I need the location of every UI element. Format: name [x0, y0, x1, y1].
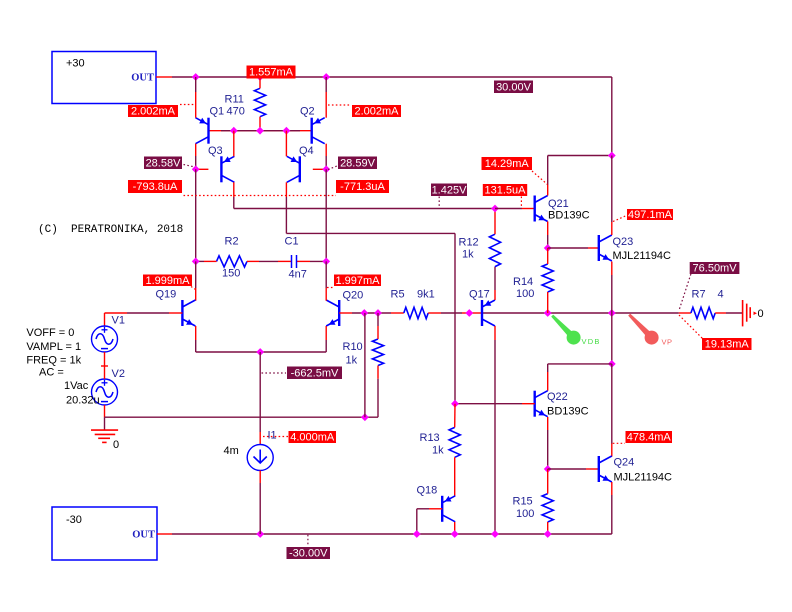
svg-text:-30.00V: -30.00V [289, 548, 328, 560]
label R5 value [417, 289, 435, 301]
label R13 refdes [420, 432, 440, 444]
label R7 value [718, 289, 724, 301]
wire right rail mid [325, 169, 327, 261]
label I1 value [224, 445, 239, 457]
svg-text:Q18: Q18 [417, 485, 438, 497]
svg-text:Q17: Q17 [469, 289, 490, 301]
transistor Q17 [482, 300, 495, 326]
svg-text:Q1: Q1 [210, 106, 225, 118]
label Q21 value [548, 210, 590, 222]
svg-text:(C) PERATRONIKA, 2018: (C) PERATRONIKA, 2018 [38, 224, 183, 236]
label R11 value [227, 106, 245, 118]
wire Q23 base lead [548, 247, 599, 249]
transistor Q3 [221, 156, 234, 182]
source V2 [92, 379, 118, 405]
svg-text:-771.3uA: -771.3uA [340, 181, 385, 193]
svg-text:131.5uA: 131.5uA [485, 185, 527, 197]
wire Q3 emitter stub [233, 131, 235, 157]
label R14 value [516, 288, 534, 300]
svg-text:1.425V: 1.425V [432, 184, 468, 196]
label I1 refdes [268, 430, 277, 442]
transistor Q22 [535, 391, 548, 417]
label C1 refdes [285, 236, 299, 248]
svg-text:Q23: Q23 [613, 236, 634, 248]
svg-text:BD139C: BD139C [547, 406, 589, 418]
svg-text:1Vac: 1Vac [64, 380, 89, 392]
svg-text:100: 100 [516, 288, 534, 300]
label R11 refdes [225, 94, 244, 106]
transistor Q24 [599, 456, 612, 482]
node Q17 base junction [465, 309, 473, 317]
bias dotted 1.997mA [327, 287, 334, 289]
ground 0 (right) [743, 300, 764, 326]
node base row junction Q3e [230, 127, 238, 135]
wire V1V2 pin tick [101, 365, 108, 367]
svg-text:VOFF = 0: VOFF = 0 [26, 327, 74, 339]
svg-text:R7: R7 [692, 289, 706, 301]
wire Q4 base lead [313, 168, 326, 170]
svg-text:470: 470 [227, 106, 245, 118]
node Q22 base junction [451, 400, 459, 408]
svg-text:Q22: Q22 [547, 391, 568, 403]
svg-text:2.002mA: 2.002mA [131, 106, 176, 118]
bias dotted 14.29mA [532, 171, 548, 185]
wire Q23 emitter drop [611, 262, 613, 314]
wire Q21 base lead [495, 208, 535, 210]
wire Q21 emitter down [547, 222, 549, 249]
wire left rail mid [195, 169, 197, 261]
label Q23 refdes [613, 236, 634, 248]
svg-text:AC =: AC = [39, 367, 64, 379]
label Q2 refdes [300, 106, 315, 118]
node Q23 base junction [544, 244, 552, 252]
label R12 value [462, 249, 474, 261]
node rail Q22 junction [608, 360, 616, 368]
wire Q1 Q2 base row [209, 130, 312, 132]
bias label 2.002mA right [352, 105, 401, 118]
bias label 1.997mA [334, 275, 381, 287]
capacitor C1 [278, 255, 310, 268]
label R7 refdes [692, 289, 706, 301]
node base row junction R11 [256, 127, 264, 135]
node bottom rail Q18b [413, 530, 421, 538]
svg-text:V2: V2 [112, 368, 125, 380]
bias label 2.002mA left [128, 105, 178, 118]
label Q19 refdes [156, 289, 177, 301]
wire Q24 base lead [548, 468, 599, 470]
svg-text:C1: C1 [285, 236, 299, 248]
svg-text:BD139C: BD139C [548, 210, 590, 222]
wire output row [483, 312, 691, 314]
svg-text:1k: 1k [462, 249, 474, 261]
transistor Q19 [182, 300, 195, 326]
svg-text:Q21: Q21 [548, 198, 569, 210]
bias dotted 2.002mA right [328, 104, 351, 106]
bias label -30.00V [287, 547, 331, 560]
resistor R14 [542, 248, 553, 313]
label R10 value [346, 355, 358, 367]
svg-text:0: 0 [758, 308, 764, 320]
svg-text:Q3: Q3 [208, 145, 223, 157]
node feedback junction A [360, 309, 368, 317]
bias label -662.5mV [287, 367, 342, 380]
wire Q20 collector stub [325, 261, 327, 300]
label Q18 refdes [417, 485, 438, 497]
svg-text:R11: R11 [225, 94, 244, 106]
transistor Q1 [196, 118, 209, 144]
wire Q3 base lead [196, 168, 209, 170]
svg-text:Q24: Q24 [614, 457, 635, 469]
svg-text:28.59V: 28.59V [340, 157, 376, 169]
node R2 left junction [192, 258, 200, 266]
node top-right rail junction [608, 152, 616, 160]
svg-text:76.50mV: 76.50mV [693, 263, 738, 275]
svg-text:-793.8uA: -793.8uA [133, 181, 178, 193]
transistor Q4 [287, 156, 300, 182]
label Q22 refdes [547, 391, 568, 403]
wire Q19 emitter drop [196, 326, 261, 352]
wire V2 to ground [104, 405, 106, 430]
label copyright text [38, 224, 183, 236]
bias label 76.50mV [690, 262, 740, 275]
svg-text:28.58V: 28.58V [146, 157, 182, 169]
svg-text:R15: R15 [513, 496, 533, 508]
svg-text:R10: R10 [343, 341, 363, 353]
bias dotted 76.50mV [679, 274, 691, 311]
wire Q4 emitter stub [285, 131, 287, 157]
bias label -793.8uA [128, 180, 182, 193]
node bottom rail R15 [544, 530, 552, 538]
source V1 [92, 326, 118, 352]
bias dotted 2.002mA left [180, 104, 194, 106]
svg-text:2.002mA: 2.002mA [354, 106, 399, 118]
wire R2 C1 row [196, 260, 327, 262]
bias label 14.29mA [482, 157, 533, 170]
wire Q23 collector stub [611, 156, 613, 236]
svg-text:14.29mA: 14.29mA [485, 158, 530, 170]
svg-text:VAMPL = 1: VAMPL = 1 [26, 341, 81, 353]
label Q24 refdes [614, 457, 635, 469]
svg-text:1.997mA: 1.997mA [335, 275, 380, 287]
svg-text:OUT: OUT [132, 530, 155, 541]
probe VDB (dB marker) [551, 315, 600, 346]
bias dotted -793.8uA -771.3uA [184, 195, 337, 197]
node output junction rail [608, 309, 616, 317]
resistor R12 [489, 209, 500, 267]
resistor R2 [204, 256, 259, 267]
wire V1 V2 link [104, 352, 106, 379]
resistor R10 [372, 313, 383, 379]
wire Q17 emitter stub up [494, 267, 496, 300]
label V2 refdes [112, 368, 125, 380]
label Q22 value [547, 406, 589, 418]
svg-text:4n7: 4n7 [289, 269, 307, 281]
bias dotted 28.58V [184, 165, 196, 168]
bias dotted 19.13mA [679, 315, 703, 339]
node ground link junction [361, 413, 369, 421]
wire rail output to Q22 link [611, 313, 613, 364]
svg-text:I1: I1 [268, 430, 277, 442]
wire Q20 base row [339, 312, 404, 314]
svg-text:VP: VP [662, 338, 673, 347]
bias label 497.1mA [627, 209, 673, 221]
label Q1 refdes [210, 106, 225, 118]
wire I1 top [259, 352, 261, 445]
node Q24 base junction [544, 465, 552, 473]
node V+ junction C [322, 73, 330, 81]
label Q23 value [613, 250, 672, 262]
svg-text:150: 150 [222, 268, 240, 280]
probe VP (phase marker) [628, 314, 672, 347]
svg-text:Q20: Q20 [343, 290, 364, 302]
wire base row maroon overlay [221, 130, 300, 132]
node base row junction Q4e [283, 127, 291, 135]
label R13 value [432, 445, 444, 457]
svg-text:MJL21194C: MJL21194C [613, 250, 672, 262]
bias label 1.425V [431, 184, 467, 197]
label R5 refdes [391, 289, 405, 301]
label Q21 refdes [548, 198, 569, 210]
label R2 value [222, 268, 240, 280]
wire Q2 collector stub [325, 144, 327, 170]
bias dotted 1.999mA [191, 287, 196, 290]
wire I1 bottom [259, 471, 261, 535]
bias dotted 131.5uA [520, 197, 522, 209]
port +30 (hierarchical block) [52, 52, 156, 104]
bias dotted 4.000mA [263, 436, 288, 438]
svg-text:30.00V: 30.00V [496, 81, 532, 93]
svg-text:-30: -30 [66, 514, 82, 526]
svg-text:1.557mA: 1.557mA [249, 67, 294, 79]
bias label 19.13mA [702, 338, 752, 351]
svg-text:R5: R5 [391, 289, 405, 301]
wire +30 top rail [156, 77, 612, 156]
node R12 top junction [491, 205, 499, 213]
label R12 refdes [459, 237, 479, 249]
node bottom rail Q17 [491, 530, 499, 538]
wire Q3 collector drop [234, 182, 495, 208]
label R10 refdes [343, 341, 363, 353]
transistor Q23 [599, 235, 612, 261]
wire rail down to Q24 [611, 364, 613, 457]
svg-text:100: 100 [516, 508, 534, 520]
svg-text:-662.5mV: -662.5mV [291, 367, 339, 379]
node V+ junction B [256, 73, 264, 81]
wire Q20 emitter drop [260, 326, 326, 352]
svg-text:4m: 4m [224, 445, 239, 457]
bias dotted -662.5mV [262, 372, 287, 374]
svg-text:MJL21194C: MJL21194C [614, 472, 673, 484]
svg-text:R13: R13 [420, 432, 440, 444]
ground 0 (left) [91, 430, 119, 451]
node Q3 base rail junction [192, 165, 200, 173]
label C1 value [289, 269, 307, 281]
bias label 1.999mA [143, 275, 192, 287]
svg-text:1k: 1k [432, 445, 444, 457]
svg-text:VDB: VDB [582, 337, 601, 346]
label Q17 refdes [469, 289, 490, 301]
svg-text:1.999mA: 1.999mA [145, 275, 190, 287]
label R15 value [516, 508, 534, 520]
wire Q1 collector stub [195, 144, 197, 170]
wire feedback vertical [364, 313, 366, 417]
resistor R7 [691, 307, 743, 318]
svg-text:20.32u: 20.32u [66, 395, 100, 407]
wire Q22 collector link [548, 364, 612, 391]
transistor Q2 [312, 118, 325, 144]
svg-text:9k1: 9k1 [417, 289, 435, 301]
transistor Q20 [326, 300, 339, 326]
port -30 (hierarchical block) [52, 507, 157, 560]
node bottom rail Q18c [451, 530, 459, 538]
label Q3 refdes [208, 145, 223, 157]
wire Q1 emitter stub [195, 77, 197, 118]
svg-text:Q4: Q4 [299, 145, 314, 157]
wire Q19 base lead [105, 313, 183, 327]
transistor Q18 [442, 496, 455, 522]
wire Q17 collector drop [494, 326, 496, 534]
wire Q21 collector up [548, 156, 612, 196]
svg-text:478.4mA: 478.4mA [627, 432, 672, 444]
resistor R15 [542, 469, 553, 534]
bias dotted 497.1mA [613, 216, 627, 222]
bias label 131.5uA [483, 184, 527, 197]
svg-text:4: 4 [718, 289, 724, 301]
bias label 4.000mA [289, 431, 337, 444]
wire Q2 emitter stub [325, 77, 327, 118]
resistor R13 [449, 404, 460, 497]
svg-text:R12: R12 [459, 237, 479, 249]
svg-text:4.000mA: 4.000mA [290, 432, 335, 444]
svg-text:1k: 1k [346, 355, 358, 367]
svg-text:+30: +30 [66, 58, 85, 70]
bias label 478.4mA [626, 431, 673, 444]
wire ground link row [105, 379, 379, 418]
source V params text [26, 327, 99, 407]
node bottom rail I1 [256, 530, 264, 538]
wire Q22 emitter down [547, 417, 549, 469]
bias dotted 1.425V [438, 197, 440, 209]
wire Q22 base lead [455, 403, 535, 405]
label R14 refdes [513, 276, 533, 288]
wire Q4 collector drop [286, 182, 455, 403]
node Q4 base rail junction [322, 165, 330, 173]
label Q4 refdes [299, 145, 314, 157]
svg-text:0: 0 [113, 439, 119, 451]
node output junction R14 [544, 309, 552, 317]
svg-text:497.1mA: 497.1mA [628, 209, 673, 221]
svg-text:V1: V1 [112, 315, 125, 327]
node feedback junction B [374, 309, 382, 317]
node emitter bus junction [256, 348, 264, 356]
bias label 28.58V [144, 157, 182, 170]
label R2 refdes [225, 236, 239, 248]
source I1 [247, 445, 273, 471]
wire Q24 emitter down [611, 482, 613, 534]
svg-text:FREQ = 1k: FREQ = 1k [26, 355, 81, 367]
wire Q19 collector stub [195, 261, 197, 300]
bias label 28.59V [338, 157, 377, 170]
label R15 refdes [513, 496, 533, 508]
svg-text:R2: R2 [225, 236, 239, 248]
bias dotted 28.59V [328, 166, 337, 170]
wire Q18 collector stub [454, 522, 456, 534]
bias dotted 478.4mA [613, 442, 625, 444]
bias dotted -30.00V [307, 535, 309, 547]
svg-text:19.13mA: 19.13mA [705, 339, 750, 351]
wire -30 bottom rail [157, 533, 612, 535]
svg-text:Q2: Q2 [300, 106, 315, 118]
label Q20 refdes [343, 290, 364, 302]
bias label -771.3uA [336, 180, 389, 193]
label Q24 value [614, 472, 673, 484]
wire R5 to Q17 base [428, 312, 482, 314]
resistor R5 [404, 307, 428, 318]
bias label 1.557mA [247, 66, 296, 79]
bias label 30.00V [494, 81, 533, 94]
resistor R11 [254, 77, 265, 131]
svg-text:Q19: Q19 [156, 289, 177, 301]
label V1 refdes [112, 315, 125, 327]
transistor Q21 [535, 196, 548, 222]
wire Q18 base lead [417, 509, 442, 534]
svg-text:OUT: OUT [131, 73, 154, 84]
svg-text:R14: R14 [513, 276, 533, 288]
node V+ junction A [192, 73, 200, 81]
node C1 right junction [322, 258, 330, 266]
